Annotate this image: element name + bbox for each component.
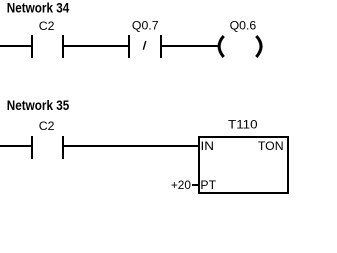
svg-text:TON: TON xyxy=(258,139,284,153)
value +20 on PT pin xyxy=(171,178,191,192)
wire: PT pin lead xyxy=(192,184,199,186)
svg-text:IN: IN xyxy=(201,139,215,153)
label T110 xyxy=(228,118,258,132)
wire: rung 2 from C2 to timer box IN xyxy=(64,145,199,147)
pin label PT xyxy=(200,178,216,192)
svg-text:Network 35: Network 35 xyxy=(7,98,70,113)
pin label IN xyxy=(201,139,215,153)
svg-text:PT: PT xyxy=(200,178,216,192)
NC slash inside contact Q0.7 xyxy=(143,41,146,50)
pin label TON xyxy=(258,139,284,153)
svg-text:T110: T110 xyxy=(228,118,258,132)
wire: rung 1 left rail lead xyxy=(0,45,32,47)
wire: rung 1 between Q0.7 and coil xyxy=(162,45,219,47)
contact C2 (rung 2, NO contact) xyxy=(31,136,64,159)
contact Q0.7 (NC contact) xyxy=(128,35,162,58)
svg-text:+20: +20 xyxy=(171,178,191,192)
label C2 (rung 1) xyxy=(39,19,55,33)
svg-text:Network 34: Network 34 xyxy=(7,1,70,16)
network header Network 34 xyxy=(7,1,70,16)
label Q0.6 xyxy=(230,19,257,33)
label C2 (rung 2) xyxy=(39,119,55,133)
timer box T110 TON xyxy=(198,136,289,194)
wire: rung 1 between C2 and Q0.7 xyxy=(64,45,128,47)
coil Q0.6 output xyxy=(219,36,261,57)
contact C2 (rung 1, NO contact) xyxy=(31,35,64,58)
network header Network 35 xyxy=(7,98,70,113)
wire: rung 2 left rail lead xyxy=(0,145,32,147)
svg-text:C2: C2 xyxy=(39,119,55,133)
label Q0.7 xyxy=(132,19,159,33)
svg-text:C2: C2 xyxy=(39,19,55,33)
svg-text:Q0.7: Q0.7 xyxy=(132,19,159,33)
svg-text:Q0.6: Q0.6 xyxy=(230,19,257,33)
